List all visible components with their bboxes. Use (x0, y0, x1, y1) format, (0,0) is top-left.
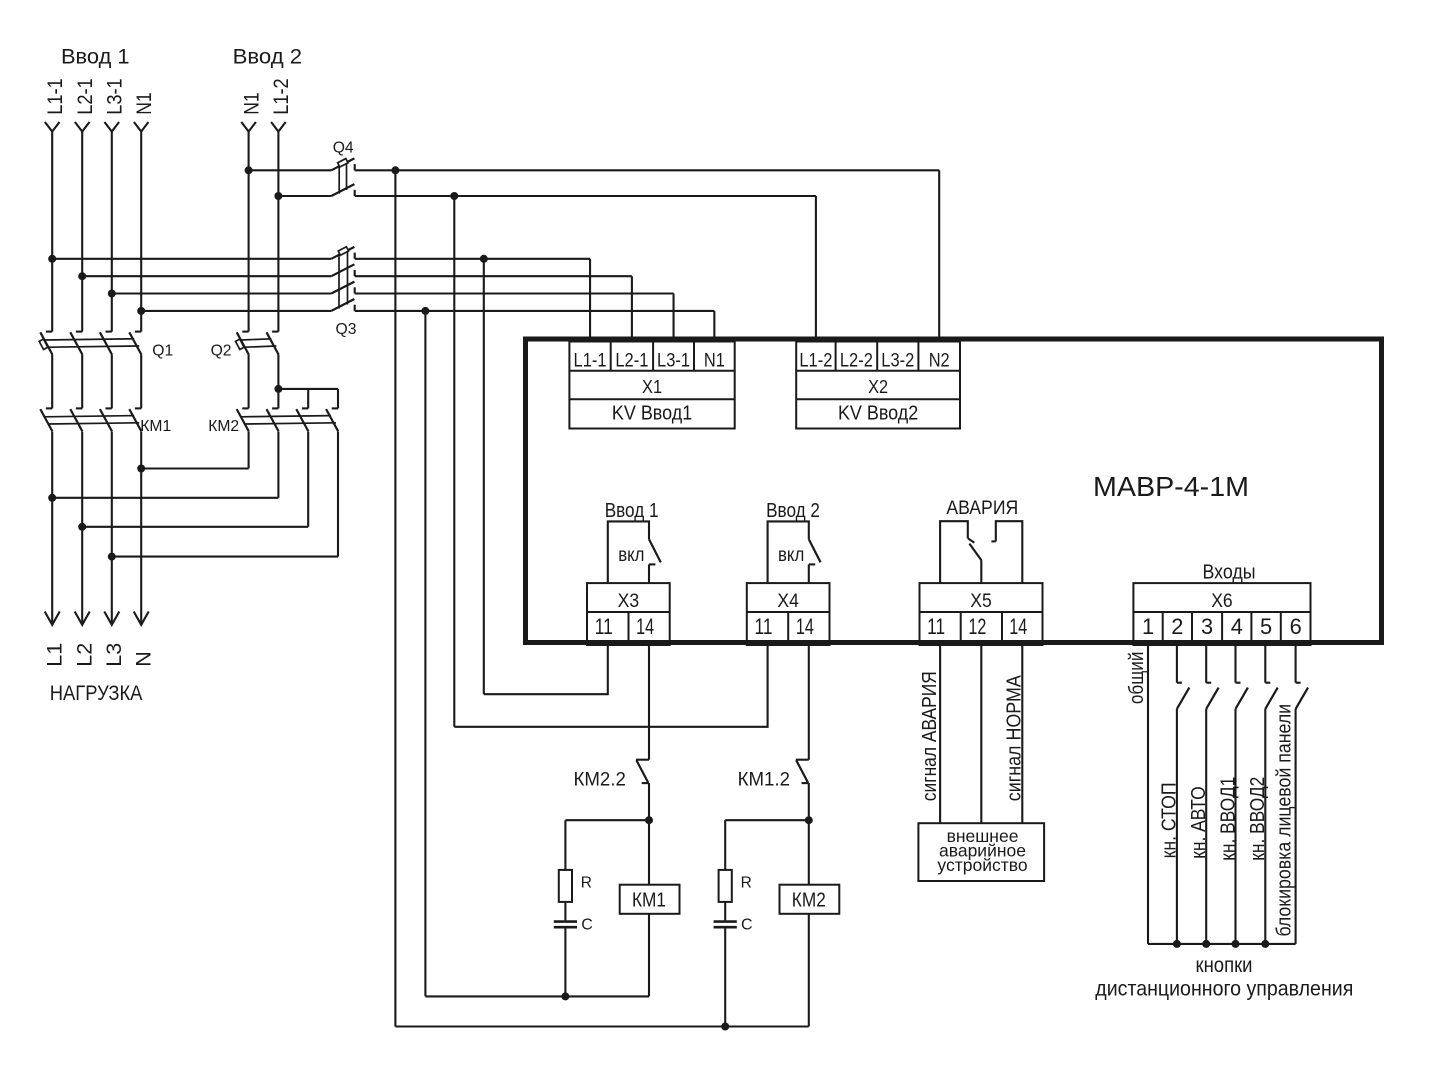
wire C to rail (564, 928, 566, 996)
resistor R (right) (719, 870, 732, 902)
wire Q4 pole1 to X2 N2 (355, 169, 940, 171)
contactor KM2 pole (237, 408, 249, 431)
wire L1-2 to Q4 (278, 195, 331, 197)
svg-text:Q1: Q1 (152, 342, 173, 359)
terminal block X3 (587, 583, 670, 645)
wire X6:5 lower (1264, 709, 1266, 944)
svg-text:Ввод 1: Ввод 1 (605, 499, 659, 522)
wire L2-1 to Q3 (82, 275, 331, 277)
wire KM2 top bracket (278, 388, 338, 390)
svg-text:КМ2: КМ2 (792, 889, 826, 911)
Q1 drive rectangle (39, 339, 48, 349)
wire Q2 pole1 to KM2 (248, 355, 250, 409)
wire N to load (140, 432, 142, 625)
wire L1-1 to Q3 (52, 258, 331, 260)
svg-text:L1: L1 (42, 643, 66, 667)
svg-text:кн. ВВОД2: кн. ВВОД2 (1247, 777, 1269, 861)
junction L1-2/Q4 (274, 192, 282, 200)
contactor KM1 pole (129, 408, 141, 431)
svg-text:L2: L2 (72, 643, 96, 667)
svg-text:Ввод 2: Ввод 2 (766, 499, 820, 522)
junction N1/Q3 (137, 307, 145, 315)
terminal block X1 cells (569, 342, 734, 429)
svg-text:C: C (581, 917, 593, 934)
junction L2-1/Q3 (78, 272, 86, 280)
wire to X3:11 (484, 645, 608, 694)
wire to RC branch 2 (725, 819, 809, 821)
svg-text:11: 11 (755, 614, 773, 639)
wire L1-1 feeder (51, 131, 53, 331)
button contact блокировка лицевой панели (1296, 683, 1308, 709)
junction button bus (1261, 940, 1269, 948)
Q2 linkage (241, 339, 277, 347)
svg-text:N1: N1 (704, 351, 725, 372)
contactor KM1 pole (100, 408, 112, 431)
svg-text:3: 3 (1201, 614, 1213, 639)
wire KM2 pole3 down (307, 432, 309, 527)
svg-text:Входы: Входы (1203, 561, 1256, 583)
wire Q3 pole2 out (355, 275, 632, 277)
junction KM1 coil node (645, 816, 653, 824)
wire into KM2 pole2 (277, 389, 279, 409)
svg-text:14: 14 (636, 614, 654, 639)
svg-text:6: 6 (1290, 614, 1302, 639)
terminal block X4 (747, 583, 830, 645)
Q3 linkage (339, 250, 348, 309)
wire KM2 pole4 down (337, 432, 339, 557)
wire X6:2 lower (1176, 709, 1178, 944)
wire KM2 pole1 down (248, 432, 250, 469)
svg-text:КМ2.2: КМ2.2 (574, 769, 626, 790)
wire L1-2 feeder (277, 131, 279, 331)
wire into KM2 pole3 (307, 389, 309, 409)
button contact кн. АВТО (1206, 683, 1218, 709)
wire to R1 (564, 820, 566, 870)
wire R2 to C2 (724, 902, 726, 921)
junction button bus (1173, 940, 1181, 948)
svg-text:КМ1: КМ1 (632, 889, 666, 911)
wire Q1 to KM1 (111, 355, 113, 409)
wire Q3 pole4 out (355, 310, 715, 312)
wire N1-in2 to Q4 (249, 169, 332, 171)
svg-text:R: R (741, 875, 752, 892)
svg-text:14: 14 (796, 614, 814, 639)
svg-text:L1-1: L1-1 (43, 78, 67, 115)
svg-text:N1: N1 (239, 92, 263, 115)
junction L3/KM2 (108, 553, 116, 561)
wire R to C (564, 902, 566, 921)
wire down into X2 L1-2 (815, 196, 817, 342)
contact KM1.2 (796, 760, 809, 783)
coil KM1 (620, 885, 680, 914)
wire down into X1 L1-1 (589, 259, 591, 342)
svg-text:C: C (741, 917, 753, 934)
svg-text:кн. ВВОД1: кн. ВВОД1 (1217, 777, 1239, 861)
breaker Q1 pole 3 (100, 332, 112, 355)
terminal block X5 (920, 583, 1043, 645)
source arrow N1 in2 (241, 122, 256, 132)
wire X5:12 (980, 645, 982, 823)
switch Q3 pole 3 (331, 282, 354, 294)
svg-text:N1: N1 (132, 92, 156, 115)
wire C2 to rail (724, 928, 726, 1026)
svg-text:кн. СТОП: кн. СТОП (1159, 782, 1181, 858)
svg-text:КМ2: КМ2 (208, 418, 239, 435)
svg-text:кн. АВТО: кн. АВТО (1188, 786, 1210, 859)
relay contact X4 (вкл) (768, 521, 821, 583)
svg-text:КМ1.2: КМ1.2 (738, 769, 790, 790)
wire N1 feeder (140, 131, 142, 331)
svg-text:L2-1: L2-1 (615, 351, 648, 372)
terminal block X2 cells (796, 342, 960, 429)
device box МАВР-4-1М (526, 339, 1382, 643)
junction N/KM2 (137, 465, 145, 473)
junction L2/KM2 (78, 523, 86, 531)
wire L3-1 feeder (111, 131, 113, 331)
button contact кн. СТОП (1177, 683, 1189, 709)
svg-text:L3-2: L3-2 (881, 351, 914, 372)
svg-text:X2: X2 (868, 376, 888, 397)
contactor KM1 pole (40, 408, 52, 431)
wire X6:1 общий (1147, 645, 1149, 944)
button common bus (1148, 943, 1296, 945)
KM1 linkage (44, 416, 139, 424)
wire L1 to load (51, 432, 53, 625)
wire L2 to load (81, 432, 83, 625)
junction Q3-L1-1 to X3 drop (480, 255, 488, 263)
source arrow L1-2 (271, 122, 286, 132)
svg-text:R: R (581, 875, 592, 892)
wire Q3 pole3 out (355, 292, 674, 294)
svg-text:Q4: Q4 (333, 140, 354, 157)
wire Q1 to KM1 (81, 355, 83, 409)
breaker Q2 pole 1 (237, 332, 249, 355)
wire KM1.2 to node (808, 783, 810, 820)
wire X3:14 down (648, 645, 650, 760)
Q4 drive rectangle (338, 159, 348, 167)
svg-text:L1-2: L1-2 (269, 78, 293, 115)
wire N1 input2 feeder (248, 131, 250, 331)
button contact кн. ВВОД2 (1265, 683, 1277, 709)
svg-text:L3-1: L3-1 (657, 351, 690, 372)
contactor KM2 pole (296, 408, 308, 431)
svg-text:X4: X4 (777, 590, 799, 612)
svg-text:устройство: устройство (937, 855, 1027, 875)
svg-text:сигнал НОРМА: сигнал НОРМА (1004, 675, 1026, 802)
wire L3 to load (111, 432, 113, 625)
junction RC/KM2 rail (721, 1023, 729, 1031)
svg-text:2: 2 (1171, 614, 1183, 639)
wire to RC branch 1 (565, 819, 649, 821)
Q1 linkage (44, 339, 139, 347)
breaker Q1 pole 2 (70, 332, 82, 355)
relay changeover contact X5 (940, 521, 1022, 583)
load arrow (104, 612, 119, 625)
wire L2-1 feeder (81, 131, 83, 331)
junction L3-1/Q3 (108, 290, 116, 298)
wire X6:6 lower (1295, 709, 1297, 944)
wire node to KM2 coil (808, 820, 810, 885)
wire X6:5 upper (1264, 645, 1266, 683)
wire L3-1 to Q3 (112, 292, 331, 294)
wire down into X1 L3-1 (672, 294, 674, 342)
button contact кн. ВВОД1 (1236, 683, 1248, 709)
wire N1 to Q3 (141, 310, 331, 312)
coil KM2 (780, 885, 840, 914)
svg-text:кнопки: кнопки (1196, 953, 1253, 977)
svg-text:11: 11 (595, 614, 613, 639)
wire X5:14 сигнал НОРМА (1021, 645, 1023, 823)
svg-text:вкл: вкл (618, 545, 644, 566)
svg-text:4: 4 (1231, 614, 1243, 639)
wire X6:4 upper (1234, 645, 1236, 683)
wire down into X2 N2 (938, 170, 940, 341)
junction L1/KM2 (48, 494, 56, 502)
wire into KM2 pole4 (337, 389, 339, 409)
wire Q1 to KM1 (51, 355, 53, 409)
junction KM2 bracket (274, 385, 282, 393)
svg-text:X6: X6 (1211, 590, 1233, 612)
breaker Q1 pole 4 (129, 332, 141, 355)
source arrow L3-1 (105, 122, 120, 132)
source arrow N1 in1 (134, 122, 149, 132)
wire Q3 pole1 out (355, 258, 590, 260)
contactor KM1 pole (70, 408, 82, 431)
wire down into X1 L2-1 (631, 276, 633, 341)
contactor KM2 pole (326, 408, 338, 431)
junction Q3-N1 to coil rail (421, 307, 429, 315)
junction N1-in2/Q4 (245, 166, 253, 174)
svg-text:12: 12 (968, 614, 986, 639)
junction button bus (1232, 940, 1240, 948)
wire KM2-N to load N (141, 467, 248, 469)
wire X6:4 lower (1234, 709, 1236, 944)
svg-text:дистанционного управления: дистанционного управления (1095, 977, 1353, 1001)
svg-text:общий: общий (1126, 652, 1148, 705)
svg-text:Q2: Q2 (211, 342, 232, 359)
wire down into X1 N1 (713, 311, 715, 342)
source arrow L2-1 (75, 122, 90, 132)
rail N1 bottom to KM1 (425, 995, 649, 997)
resistor R (left) (559, 870, 572, 902)
svg-text:L1-1: L1-1 (574, 351, 607, 372)
svg-text:НАГРУЗКА: НАГРУЗКА (50, 681, 143, 705)
svg-text:Ввод 1: Ввод 1 (61, 45, 130, 69)
wire KM2-L1 to load L1 (52, 497, 278, 499)
wire KM2 coil to rail (808, 914, 810, 1027)
rail L1-1 down (483, 259, 485, 694)
svg-text:5: 5 (1260, 614, 1272, 639)
svg-text:КМ1: КМ1 (140, 418, 171, 435)
terminal block X6 (1133, 583, 1310, 645)
Q2 drive rectangle (236, 339, 245, 349)
junction RC/KM1 rail (561, 992, 569, 1000)
rail N-in2 bottom to KM2 (395, 1025, 808, 1027)
wire X6:3 lower (1205, 709, 1207, 944)
junction Q4-L1-2 to X4 drop (450, 192, 458, 200)
junction L1-1/Q3 (48, 255, 56, 263)
switch Q4 pole 2 (331, 184, 354, 196)
relay contact X3 (вкл) (608, 521, 661, 583)
svg-text:N: N (131, 651, 155, 667)
svg-text:сигнал АВАРИЯ: сигнал АВАРИЯ (919, 671, 941, 801)
switch Q4 pole 1 (331, 158, 354, 170)
Q3 drive rectangle (338, 247, 348, 255)
rail N1 down (424, 311, 426, 997)
wire X5:11 сигнал АВАРИЯ (939, 645, 941, 823)
wire KM2.2 to node (648, 783, 650, 820)
contactor KM2 pole (267, 408, 279, 431)
wire Q4 pole2 to X2 L1-2 (355, 195, 816, 197)
wire Q1 to KM1 (140, 355, 142, 409)
svg-text:KV Ввод2: KV Ввод2 (838, 401, 918, 424)
svg-text:X5: X5 (970, 590, 992, 612)
switch Q3 pole 4 (331, 299, 354, 311)
Q4 linkage (339, 161, 346, 194)
contact KM2.2 (636, 760, 649, 783)
wire X4:14 down (808, 645, 810, 760)
wire to X4:11 (454, 645, 767, 727)
wire X6:3 upper (1205, 645, 1207, 683)
wire KM2-L2 to load L2 (82, 526, 308, 528)
KM2 linkage (241, 416, 336, 424)
svg-text:МАВР-4-1М: МАВР-4-1М (1093, 471, 1249, 502)
svg-text:Q3: Q3 (336, 321, 357, 338)
svg-text:АВАРИЯ: АВАРИЯ (946, 497, 1018, 519)
rail L1-2 down (453, 196, 455, 727)
wire node to KM1 coil (648, 820, 650, 885)
svg-text:11: 11 (927, 614, 945, 639)
capacitor C (left) (554, 922, 577, 928)
capacitor C (right) (714, 922, 737, 928)
svg-text:X1: X1 (642, 376, 662, 397)
load arrow (134, 612, 149, 625)
wire to R2 (724, 820, 726, 870)
wire X6:6 upper (1295, 645, 1297, 683)
svg-text:вкл: вкл (778, 545, 804, 566)
svg-text:L2-2: L2-2 (840, 351, 873, 372)
svg-text:L3-1: L3-1 (103, 78, 127, 115)
svg-text:L1-2: L1-2 (799, 351, 832, 372)
source arrow L1-1 (45, 122, 60, 132)
wire KM2-L3 to load L3 (112, 556, 338, 558)
svg-text:блокировка лицевой панели: блокировка лицевой панели (1274, 704, 1296, 937)
wire KM1 coil to rail (648, 914, 650, 997)
svg-text:N2: N2 (929, 351, 950, 372)
svg-text:KV Ввод1: KV Ввод1 (612, 401, 692, 424)
wire KM2 pole2 down (277, 432, 279, 498)
external alarm device box (918, 823, 1044, 881)
wire Q2 pole2 down (277, 355, 279, 389)
junction Q4-N to drop rail (391, 166, 399, 174)
svg-text:14: 14 (1009, 614, 1027, 639)
svg-text:L2-1: L2-1 (73, 78, 97, 114)
switch Q3 pole 1 (331, 247, 354, 259)
load arrow (45, 612, 60, 625)
junction button bus (1202, 940, 1210, 948)
junction KM2 coil node (805, 816, 813, 824)
wire X6:2 upper (1176, 645, 1178, 683)
breaker Q2 pole 2 (267, 332, 279, 355)
switch Q3 pole 2 (331, 264, 354, 276)
svg-text:X3: X3 (618, 590, 640, 612)
breaker Q1 pole 1 (40, 332, 52, 355)
svg-text:Ввод 2: Ввод 2 (233, 45, 303, 69)
rail N-in2 down (394, 170, 396, 1026)
svg-text:L3: L3 (102, 643, 126, 667)
svg-text:1: 1 (1142, 614, 1154, 639)
load arrow (75, 612, 90, 625)
